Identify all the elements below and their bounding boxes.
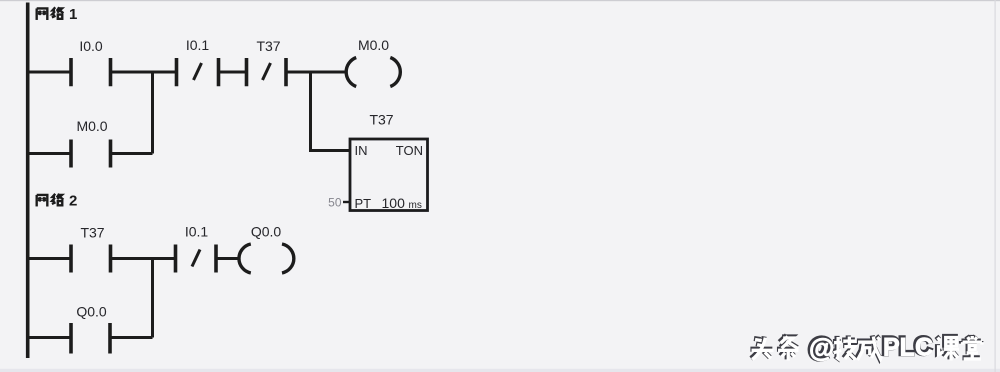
svg-text:@: @ bbox=[809, 333, 834, 363]
contact Q0.0 bbox=[71, 323, 110, 354]
wire N1 rung segment B bbox=[112, 71, 175, 74]
coil M0.0 bbox=[346, 58, 400, 87]
svg-text:50: 50 bbox=[328, 196, 342, 210]
slash T37 bbox=[263, 63, 271, 80]
svg-text:M0.0: M0.0 bbox=[76, 118, 107, 134]
svg-text:100: 100 bbox=[382, 195, 406, 211]
network 1 title bbox=[37, 6, 78, 23]
wire N2 rung segment A bbox=[26, 257, 70, 260]
svg-text:1: 1 bbox=[69, 6, 77, 23]
wire N1 rung segment A bbox=[26, 71, 70, 74]
timer box T37 bbox=[350, 139, 428, 211]
svg-text:I0.1: I0.1 bbox=[185, 224, 209, 240]
wire N2 rung segment B bbox=[112, 257, 174, 260]
svg-text:M0.0: M0.0 bbox=[358, 37, 389, 53]
wire PT input bbox=[343, 201, 350, 203]
right border line bbox=[995, 0, 996, 372]
svg-text:T37: T37 bbox=[256, 38, 280, 54]
svg-text:I0.0: I0.0 bbox=[79, 38, 103, 54]
bottom border band bbox=[0, 369, 1000, 372]
coil Q0.0 bbox=[239, 244, 294, 273]
wire N1 rung segment C bbox=[220, 71, 246, 74]
svg-text:IN: IN bbox=[355, 143, 368, 158]
wire N2 rung segment C bbox=[218, 257, 241, 260]
wire branch M0.0 vertical bbox=[151, 72, 154, 154]
svg-text:PLC: PLC bbox=[883, 334, 933, 362]
watermark dark text layer bbox=[808, 331, 932, 361]
svg-text:ms: ms bbox=[409, 200, 422, 211]
svg-text:Q0.0: Q0.0 bbox=[76, 304, 107, 320]
svg-text:T37: T37 bbox=[80, 225, 104, 241]
svg-text:I0.1: I0.1 bbox=[186, 37, 210, 53]
svg-text:2: 2 bbox=[69, 193, 77, 210]
left power rail bbox=[26, 3, 30, 359]
watermark white text layer bbox=[809, 333, 933, 363]
network 2 title bbox=[37, 193, 78, 210]
wire timer branch bbox=[311, 72, 351, 151]
svg-text:T37: T37 bbox=[369, 112, 393, 128]
contact I0.1 NC N2 bbox=[176, 245, 217, 273]
top border band bbox=[0, 0, 1000, 1]
svg-text:TON: TON bbox=[396, 143, 423, 158]
wire branch Q0.0 vertical bbox=[151, 259, 154, 338]
slash I0.1 bbox=[194, 63, 202, 80]
wire Q0.0 branch rung bbox=[26, 336, 153, 339]
watermark white glyph layer bbox=[752, 336, 982, 360]
contact I0.0 bbox=[71, 58, 111, 86]
wire M0.0 branch rung bbox=[26, 152, 153, 155]
slash I0.1 N2 bbox=[192, 250, 200, 267]
contact T37 NC bbox=[247, 58, 287, 86]
svg-text:PT: PT bbox=[355, 196, 372, 211]
contact I0.1 NC bbox=[177, 58, 219, 86]
wire N1 rung segment D bbox=[288, 71, 348, 74]
watermark dark outline layer bbox=[750, 335, 980, 359]
contact T37 N2 bbox=[71, 245, 111, 273]
contact M0.0 bbox=[71, 140, 111, 168]
svg-text:Q0.0: Q0.0 bbox=[251, 224, 282, 240]
